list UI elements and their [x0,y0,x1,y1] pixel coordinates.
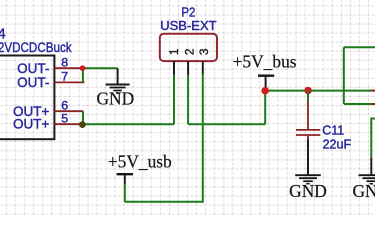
pin 5 OUT+ [13,111,80,131]
junction dot at pin 5 (dark) [79,121,86,128]
component U4 body (12V DCDC buck converter), cut off at left edge [0,56,54,140]
wire riser up to +5V_bus junction [264,91,266,125]
svg-text:GND: GND [96,89,134,109]
power port GND (top) stem [117,68,119,84]
wire pin8 junction to GND corner [83,67,118,69]
power port +5V_bus stem [265,76,267,91]
top right block: lower stub wire [344,103,371,105]
svg-text:P2: P2 [181,5,195,19]
svg-text:OUT-: OUT- [17,61,49,76]
svg-text:22uF: 22uF [323,137,352,151]
connector P2 body [160,34,217,61]
svg-text:USB-EXT: USB-EXT [160,19,217,33]
svg-text:GND: GND [289,181,327,201]
power port +5V_usb stem [124,174,126,184]
svg-text:12VDCDCBuck: 12VDCDCBuck [0,40,72,55]
junction dot at C11 branch [304,87,312,95]
svg-text:1: 1 [167,48,181,55]
P2 pin 2 [182,48,196,74]
top right block: vertical wire [343,47,345,104]
off-sheet pin stub (lower) [371,103,375,105]
svg-text:C11: C11 [322,123,344,137]
junction dot +5V_bus left [261,87,269,95]
wire from right edge to GND (bottom right) [371,118,375,120]
wire P2 pin3 down to +5V_usb net [202,74,204,202]
svg-text:OUT+: OUT+ [13,117,49,132]
wire net from pin5 junction to P2 pin1 riser [80,123,174,125]
wire +5V_usb stem lower part [124,184,126,202]
capacitor C11 bottom pin [307,136,309,140]
svg-text:OUT-: OUT- [17,75,49,90]
svg-text:6: 6 [61,98,68,112]
svg-text:2: 2 [182,48,196,55]
junction dot at pin 8 [80,65,86,71]
power port GND (bottom right) stem [370,158,372,175]
power port GND (under C11) stem [307,140,309,176]
power port +5V_bus bar [258,75,274,77]
capacitor C11 top pin [307,101,309,130]
power port GND (bottom right) bars [359,175,375,184]
power port GND (under C11) bars [295,175,321,184]
wire stub from bus down to C11 [307,91,309,101]
power port +5V_usb bar [117,173,133,175]
P2 pin 1 [167,48,181,74]
svg-text:+5V_bus: +5V_bus [233,52,297,72]
wire P2 pin2 corner toward +5V_bus riser [188,123,265,125]
svg-text:+5V_usb: +5V_usb [108,152,172,172]
svg-text:3: 3 [197,48,211,55]
svg-text:5: 5 [61,111,68,125]
off-sheet pin stub on +5V bus [371,90,375,92]
wire pin6 end down to pin5 junction [82,111,84,124]
wire +5V bus horizontal [265,90,371,92]
pin 7 OUT- [17,69,84,90]
wire pin7 end up to pin8 junction [82,67,84,82]
P2 pin 3 [197,48,211,74]
power port GND (top) bars [106,85,130,94]
svg-text:8: 8 [61,55,68,69]
capacitor C11 plates [296,130,320,135]
wire down to GND (bottom right) [370,118,372,159]
pin 6 OUT+ [13,98,83,119]
wire +5V_usb horizontal [125,201,204,203]
svg-text:GND: GND [352,181,375,201]
pin 8 OUT- [17,55,82,76]
top right block: upper stub wire [344,46,375,48]
wire riser to P2 pin 2 [187,74,189,125]
wire riser to P2 pin 1 [173,74,175,125]
svg-text:7: 7 [61,69,68,83]
